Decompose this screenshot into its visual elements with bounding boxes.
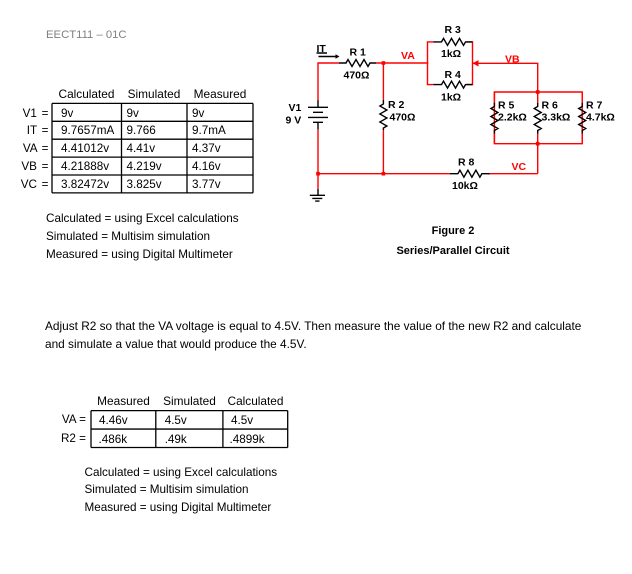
svg-text:9 V: 9 V (286, 115, 302, 127)
svg-text:R 6: R 6 (542, 100, 559, 112)
svg-text:1kΩ: 1kΩ (441, 92, 461, 104)
svg-text:V1: V1 (289, 102, 302, 114)
svg-text:R 1: R 1 (350, 47, 367, 59)
svg-text:VA: VA (401, 50, 415, 62)
svg-text:R 4: R 4 (445, 69, 462, 81)
svg-text:3.3kΩ: 3.3kΩ (542, 112, 571, 124)
svg-text:R 8: R 8 (458, 157, 475, 169)
svg-text:2.2kΩ: 2.2kΩ (498, 112, 527, 124)
svg-text:1kΩ: 1kΩ (441, 48, 461, 60)
svg-text:VC: VC (512, 161, 527, 173)
svg-text:R 2: R 2 (388, 99, 405, 111)
svg-text:10kΩ: 10kΩ (452, 180, 478, 192)
svg-text:R 5: R 5 (498, 100, 515, 112)
svg-text:470Ω: 470Ω (344, 70, 370, 82)
svg-text:IT: IT (317, 43, 327, 55)
svg-text:R 7: R 7 (586, 100, 603, 112)
svg-text:470Ω: 470Ω (390, 112, 416, 124)
svg-text:4.7kΩ: 4.7kΩ (586, 112, 615, 124)
svg-text:R 3: R 3 (445, 24, 462, 36)
svg-text:VB: VB (505, 54, 520, 66)
